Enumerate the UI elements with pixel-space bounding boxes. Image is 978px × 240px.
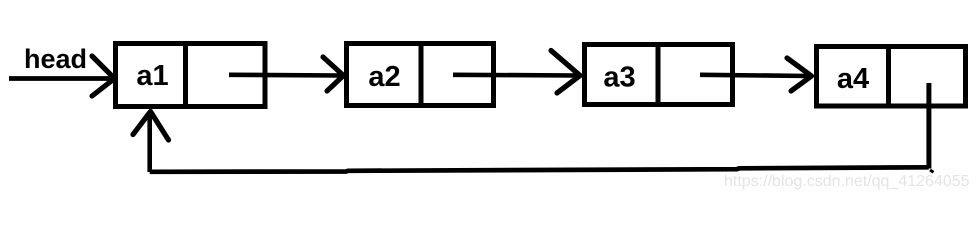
svg-text:a3: a3 (603, 62, 635, 94)
node a3 box (585, 45, 733, 105)
arrowhead into bottom of a1 (133, 112, 169, 141)
wire head arrow shaft (9, 76, 111, 81)
wire a1 next pointer to a2 (229, 73, 340, 78)
node a1 box (116, 44, 266, 107)
node a2 box (347, 44, 494, 106)
svg-text:a1: a1 (136, 60, 168, 92)
wire a3 next pointer to a4 (700, 75, 809, 76)
svg-text:head: head (24, 44, 87, 74)
head arrowhead (92, 56, 115, 96)
wire a2 next pointer to a3 (453, 73, 577, 78)
node a4 box (817, 47, 966, 107)
wire loop bottom segment (150, 167, 929, 172)
svg-text:a2: a2 (368, 61, 400, 93)
wire loop corner tick (930, 170, 934, 172)
arrowhead into a3 (551, 51, 580, 94)
wire loop left shaft up to a1 (147, 113, 152, 172)
wire loop from a4 pointer down (926, 83, 931, 169)
svg-text:a4: a4 (837, 63, 869, 95)
svg-text:https://blog.csdn.net/qq_41264: https://blog.csdn.net/qq_41264055 (724, 173, 970, 190)
arrowhead into a2 (323, 57, 344, 91)
arrowhead into a4 (787, 58, 812, 91)
